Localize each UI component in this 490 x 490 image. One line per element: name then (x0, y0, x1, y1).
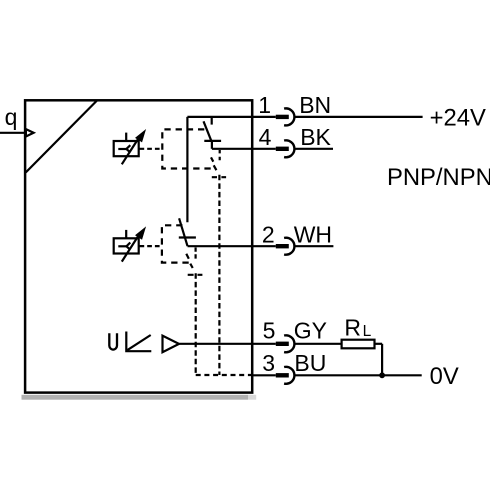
S1 adjust arrow shaft (122, 137, 140, 165)
dashed 0V return wire (196, 374, 252, 376)
NPN pole P2 crossbar dashes (188, 274, 203, 276)
wire BK stub (295, 148, 334, 150)
NPN pole P2 post dashes (195, 248, 197, 259)
S1 inner arrowhead (126, 145, 130, 152)
S1 adjust arrowhead (137, 132, 144, 141)
switch K1 crossbar (204, 140, 221, 142)
svg-text:WH: WH (294, 221, 332, 247)
wire BU to 0V (295, 374, 422, 376)
connector pin 4 (276, 140, 295, 157)
switch K2 lever (179, 218, 187, 246)
svg-text:BU: BU (294, 350, 326, 376)
wire resistor to corner (375, 343, 383, 345)
svg-text:GY: GY (294, 318, 327, 344)
switch K1 lever (204, 121, 212, 141)
wire pin1 inside (187, 116, 275, 118)
NPN pole P1 lever dash b (214, 165, 217, 170)
sensor body shadow (22, 395, 257, 400)
switch K1 fixed post (211, 117, 213, 125)
S2 adjust arrowhead (137, 229, 144, 238)
S1 inner line (118, 148, 126, 150)
junction node (379, 372, 385, 378)
NPN pole P1 lever dash a (211, 157, 213, 161)
supply rail vertical (feeds switch K2) (186, 117, 188, 222)
U ramp axes (126, 332, 151, 352)
connector pin 5 (276, 335, 295, 352)
mechanism box M1 (dashed, open right) (162, 129, 215, 168)
sensor body box (25, 100, 252, 392)
wire GY to resistor (295, 343, 342, 345)
connector pin 3 (276, 367, 295, 384)
wire BN to +24V (295, 116, 423, 118)
svg-text:RL: RL (344, 314, 371, 340)
S2 top tick (125, 230, 127, 238)
U ramp label (109, 333, 117, 349)
S2 inner arrowhead (126, 243, 130, 250)
NPN pole P1 post dashes (219, 150, 221, 162)
q input arrowhead (26, 129, 34, 136)
connector pin 1 (276, 108, 295, 125)
svg-text:+24V: +24V (430, 105, 486, 132)
svg-text:BN: BN (299, 92, 331, 118)
S2 inner line (118, 245, 126, 247)
wire pin2 inside (188, 245, 276, 247)
svg-text:3: 3 (262, 350, 275, 376)
U ramp slope (127, 335, 150, 350)
svg-text:0V: 0V (430, 363, 459, 390)
svg-text:4: 4 (259, 124, 272, 150)
svg-text:5: 5 (263, 318, 276, 344)
S1 actuation dashed link (140, 148, 163, 150)
wire pin5 inside (179, 343, 275, 345)
q input wire (0, 132, 26, 134)
corner diagonal (26, 101, 97, 173)
S2 actuation dashed link (140, 245, 162, 247)
S2 adjust arrow shaft (122, 234, 140, 262)
svg-text:q: q (5, 104, 18, 130)
load resistor RL body (342, 340, 375, 349)
sensing element S2 rect (114, 238, 139, 253)
wire pin3 inside (251, 374, 275, 376)
switch K1 output post (211, 141, 213, 149)
wire corner down to 0V (381, 344, 383, 376)
NPN pole P2 lever dash a (186, 254, 189, 259)
connector pin 2 (276, 238, 295, 255)
svg-text:BK: BK (300, 124, 331, 150)
NPN pole P1 dashed drop wire (218, 175, 220, 375)
NPN pole P2 dashed drop wire (195, 273, 197, 375)
svg-text:PNP/NPN: PNP/NPN (387, 164, 490, 191)
svg-text:2: 2 (262, 221, 275, 247)
svg-text:1: 1 (258, 92, 271, 118)
NPN pole P2 lever dash b (190, 264, 192, 268)
wire WH stub (295, 245, 334, 247)
mechanism box M2 (dashed, open right) (162, 225, 190, 262)
switch K2 crossbar (179, 236, 196, 238)
sensing element S1 rect (114, 141, 139, 156)
NPN pole P1 crossbar dashes (212, 176, 226, 178)
amplifier triangle (163, 336, 180, 353)
S1 top tick (125, 133, 127, 141)
wire pin4 inside (212, 148, 276, 150)
